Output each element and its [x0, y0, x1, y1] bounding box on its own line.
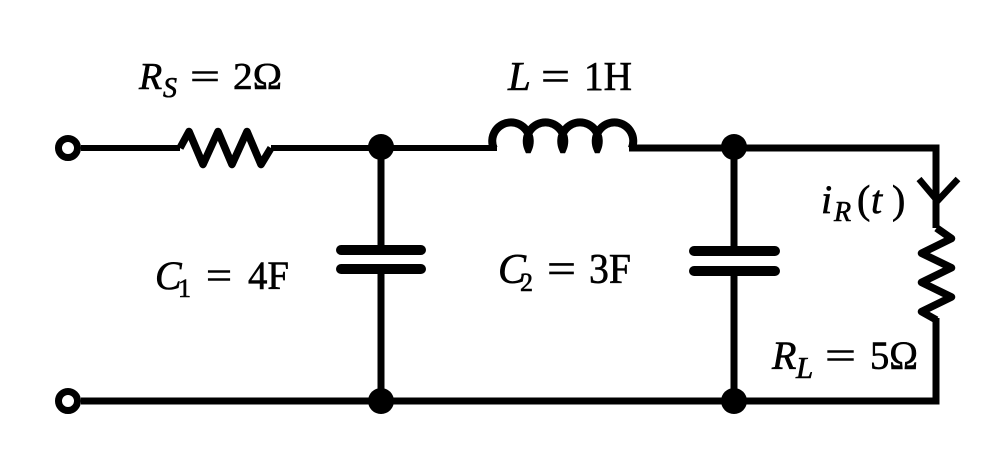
- bottom node under C2: [721, 388, 747, 414]
- resistor RL zigzag: [922, 228, 952, 320]
- input terminal bottom-left: [59, 392, 78, 411]
- svg-text:iR(t): iR(t): [821, 177, 905, 228]
- bottom node under C1: [368, 388, 394, 414]
- C2 top lead: [731, 148, 738, 246]
- capacitor C1 plates: [341, 250, 421, 269]
- right rail bottom + bottom wire: [81, 318, 936, 401]
- svg-text:C1=4F: C1=4F: [155, 253, 289, 303]
- C2 bottom lead: [731, 276, 738, 401]
- current arrow iR: [919, 179, 958, 201]
- capacitor C2 plates: [694, 251, 775, 271]
- wire RS to node A: [271, 145, 497, 151]
- svg-text:RS=2Ω: RS=2Ω: [138, 56, 282, 104]
- resistor RS zigzag: [180, 132, 271, 165]
- node A (top of C1): [368, 134, 394, 160]
- svg-text:C2=3F: C2=3F: [498, 247, 631, 297]
- svg-text:L=1H: L=1H: [507, 53, 632, 99]
- wire L to node B and down right rail top: [629, 148, 936, 228]
- C1 bottom lead: [378, 274, 385, 401]
- svg-text:RL=5Ω: RL=5Ω: [771, 333, 918, 385]
- C1 top lead: [378, 148, 385, 245]
- input terminal top-left: [59, 139, 78, 158]
- wire terminal to RS: [81, 145, 180, 151]
- node B (top of C2): [721, 134, 747, 160]
